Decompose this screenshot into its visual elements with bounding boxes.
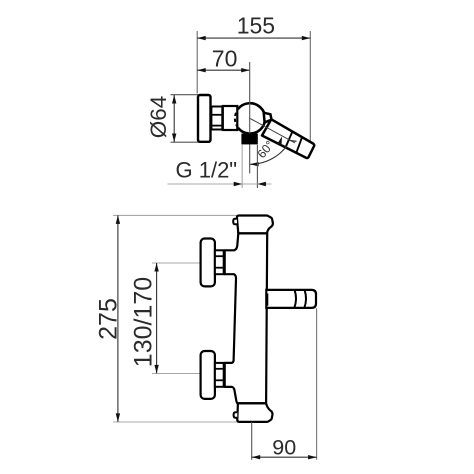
outlet black block	[241, 134, 257, 145]
upper wall flange (front)	[201, 239, 215, 287]
top cap bottom line	[238, 232, 267, 234]
arrow Ø64 bottom	[172, 134, 176, 143]
extension line outlet left	[241, 145, 243, 188]
dimension line 155	[197, 37, 310, 39]
arrow 70 right	[241, 68, 250, 72]
handle groove 1	[294, 290, 296, 308]
svg-text:90: 90	[272, 436, 296, 460]
lower nut line 2	[215, 379, 224, 381]
svg-text:Ø64: Ø64	[146, 96, 171, 139]
arrow 90 left	[252, 455, 261, 459]
dimension line 70	[197, 69, 250, 71]
extension line outlet right	[256, 145, 258, 188]
bottom cap	[237, 403, 272, 422]
centerline / extension (70 right)	[249, 62, 251, 174]
arrow 130/170 top	[154, 263, 158, 272]
extension line 275 top	[113, 214, 237, 216]
handle division line 1	[286, 132, 293, 148]
arrow 275 bottom	[116, 413, 120, 422]
extension line 90 right	[316, 308, 318, 460]
dimension line G 1/2	[168, 183, 272, 185]
handle axis line	[250, 118, 295, 142]
svg-text:G 1/2": G 1/2"	[176, 158, 238, 183]
upper nut line 2	[215, 267, 224, 269]
handle (side view, tapered bar)	[262, 119, 314, 158]
angle arc 60°	[250, 145, 287, 164]
arrow 130/170 bottom	[154, 365, 158, 374]
extension line Ø64 bottom	[171, 141, 199, 143]
upper nut	[215, 250, 224, 274]
upper nut line 1	[215, 255, 224, 257]
arrow 155 right	[302, 36, 311, 40]
handle mid tick	[289, 140, 297, 141]
handle groove 2	[304, 290, 306, 308]
extension line Ø64 top	[171, 94, 199, 96]
cartridge circle hidden arc (dashed)	[235, 108, 239, 129]
arrow G12 right	[257, 182, 266, 186]
nut line upper	[211, 114, 222, 116]
arrow arc top	[277, 136, 282, 145]
top cap	[237, 216, 273, 234]
arrow 70 left	[197, 68, 206, 72]
handle division line 2	[296, 137, 302, 152]
top cap left button	[233, 219, 237, 225]
svg-text:155: 155	[237, 13, 275, 39]
valve body block (side view)	[223, 106, 238, 130]
arrow G12 left	[234, 182, 243, 186]
cartridge circle fill	[235, 103, 265, 133]
svg-text:70: 70	[212, 46, 238, 72]
dimension line Ø64	[173, 95, 175, 142]
extension line right (155)	[309, 31, 311, 148]
column body outline	[225, 233, 268, 403]
cartridge circle	[238, 103, 265, 133]
wall flange (side view)	[198, 95, 211, 142]
arrow 155 left	[197, 36, 206, 40]
bottom cap top line	[239, 402, 267, 404]
arrow Ø64 top	[172, 95, 176, 104]
nut (side view)	[211, 107, 222, 130]
lower nut	[215, 363, 224, 387]
extension line 130/170 top	[152, 262, 201, 264]
arrow arc bottom	[250, 162, 259, 166]
lower wall flange (front)	[201, 351, 215, 399]
svg-text:275: 275	[94, 298, 122, 340]
nut line lower	[211, 125, 222, 127]
handle (front view)	[266, 290, 316, 308]
bottom cap left button	[234, 412, 238, 418]
extension line left (155/70)	[196, 31, 198, 94]
handle root dark bar	[266, 294, 268, 306]
svg-text:130/170: 130/170	[129, 277, 157, 367]
dimension line 90	[252, 456, 317, 458]
dimension line 275	[117, 215, 119, 422]
extension line 275 bottom	[113, 421, 238, 423]
lower nut line 1	[215, 368, 224, 370]
arrow 275 top	[116, 215, 120, 224]
arrow 90 right	[308, 455, 317, 459]
extension line 130/170 bottom	[152, 373, 201, 375]
handle hinge clip	[264, 113, 272, 123]
dimension line 130/170	[156, 263, 158, 373]
extension line 90 left	[251, 422, 253, 460]
